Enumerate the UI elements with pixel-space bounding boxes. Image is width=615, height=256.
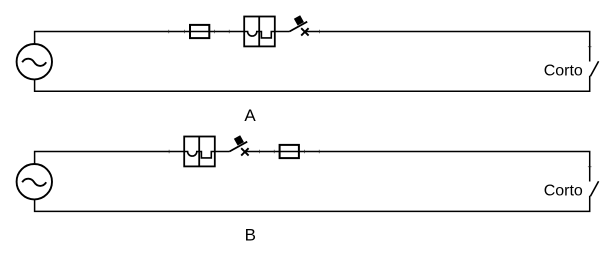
svg-text:Corto: Corto — [544, 183, 583, 200]
svg-text:Corto: Corto — [544, 63, 583, 80]
svg-text:B: B — [245, 225, 256, 244]
svg-text:A: A — [244, 106, 256, 125]
